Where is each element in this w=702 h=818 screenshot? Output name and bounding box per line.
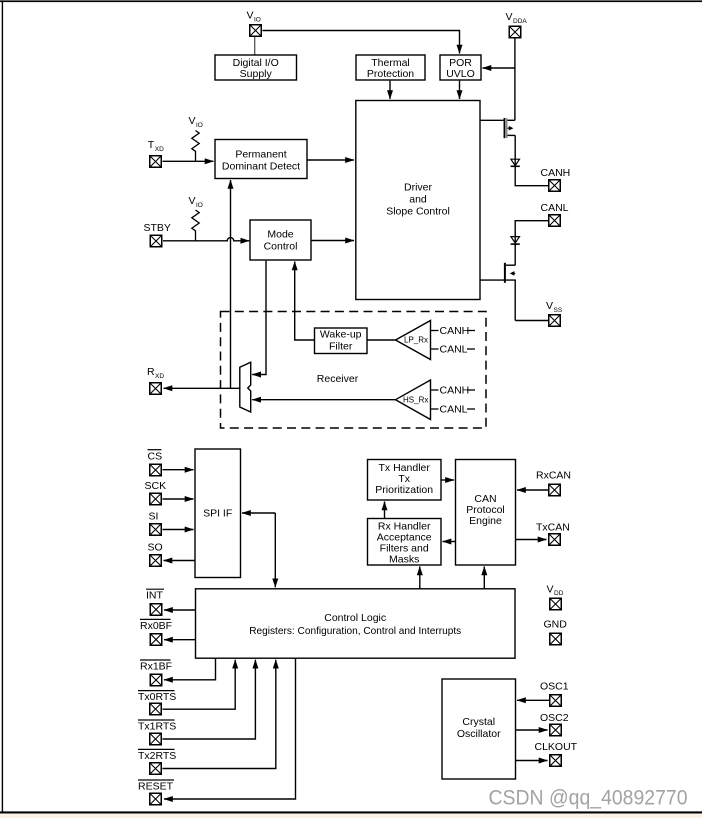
svg-text:SPI IF: SPI IF: [203, 508, 232, 520]
wire POR UVLO to Driver: [459, 81, 461, 99]
page left border: [2, 0, 3, 813]
wire Mode Control to Driver: [311, 240, 354, 242]
pin GND: [544, 619, 568, 645]
wire Control Logic to Rx0BF: [164, 639, 196, 641]
pin Rx0BF: [140, 619, 172, 645]
svg-text:CAN: CAN: [474, 493, 496, 505]
pin RESET: [138, 780, 174, 805]
pin VDDA: [506, 11, 528, 38]
box Mode Control: [250, 220, 311, 260]
wire Control Logic to RESET: [164, 658, 296, 799]
wire D1 to CANH: [515, 135, 548, 185]
svg-text:POR: POR: [449, 57, 472, 69]
wire SCK to SPI IF: [163, 498, 194, 500]
svg-text:CS: CS: [148, 451, 163, 463]
wire Control Logic to INT: [164, 609, 196, 611]
svg-text:Crystal: Crystal: [462, 716, 495, 728]
svg-text:Dominant Detect: Dominant Detect: [222, 160, 300, 172]
box Tx Handler: [368, 460, 442, 501]
wire Crystal Oscillator to CLKOUT: [516, 760, 548, 762]
wire Control Logic to CAN Protocol Engine: [483, 567, 485, 589]
wire HS_Rx to mux lower input: [252, 399, 395, 401]
pin SCK: [145, 480, 167, 505]
svg-text:DDA: DDA: [513, 18, 527, 25]
svg-text:IO: IO: [196, 202, 203, 209]
node CANH (HS input): [431, 385, 476, 397]
wire Tx1RTS to Control Logic: [163, 660, 256, 739]
page top border: [0, 0, 702, 2]
svg-text:SS: SS: [554, 307, 563, 314]
svg-text:CANH: CANH: [440, 385, 470, 397]
box SPI IF: [195, 449, 241, 578]
svg-text:Control: Control: [264, 240, 298, 252]
svg-text:Control Logic: Control Logic: [324, 612, 386, 624]
svg-text:INT: INT: [146, 590, 164, 602]
wire RxCAN to CAN Protocol Engine: [517, 489, 548, 491]
svg-text:V: V: [189, 195, 196, 207]
pin Tx0RTS: [138, 691, 176, 715]
svg-text:CANH: CANH: [440, 325, 470, 337]
wire CAN Protocol Engine to TxCAN: [516, 539, 547, 541]
box Permanent Dominant Detect: [215, 140, 307, 179]
wire VIO to POR UVLO top: [263, 31, 460, 54]
wire mux output to RXD pin: [164, 387, 240, 389]
wire LP_Rx to Wake-up Filter: [367, 339, 396, 341]
svg-text:Permanent: Permanent: [235, 148, 286, 160]
pin CLKOUT: [535, 741, 578, 766]
wire Tx Handler to CAN Protocol Engine: [441, 479, 454, 481]
svg-text:Slope Control: Slope Control: [386, 206, 450, 218]
svg-text:Mode: Mode: [267, 228, 293, 240]
svg-text:Rx1BF: Rx1BF: [140, 661, 172, 673]
svg-text:Thermal: Thermal: [371, 57, 410, 69]
svg-text:CANH: CANH: [541, 167, 571, 179]
node CANL (HS input): [431, 404, 476, 416]
diode D1: [511, 159, 520, 166]
svg-text:CANL: CANL: [440, 404, 468, 416]
wire Wake-up Filter up to Mode Control: [295, 262, 315, 341]
pin CS: [148, 450, 163, 476]
pin RxCAN: [536, 470, 571, 496]
wire CAN Protocol Engine to Rx Handler: [443, 541, 456, 543]
svg-text:Oscillator: Oscillator: [457, 728, 501, 740]
svg-text:Engine: Engine: [469, 515, 502, 527]
svg-text:Tx1RTS: Tx1RTS: [138, 721, 176, 733]
wire junction up to Permanent Dominant Detect: [230, 180, 232, 388]
wire Tx2RTS to Control Logic: [163, 660, 276, 769]
pin CANH: [541, 167, 571, 191]
wire Permanent Dominant Detect to Driver: [307, 159, 354, 161]
svg-text:Tx0RTS: Tx0RTS: [138, 691, 176, 703]
box Wake-up Filter: [315, 328, 368, 354]
svg-text:and: and: [409, 194, 427, 206]
box Thermal Protection: [356, 55, 425, 80]
op-amp LP_Rx: [396, 321, 431, 360]
svg-text:V: V: [247, 9, 254, 21]
wire Mode Control down to mux upper input: [252, 261, 266, 375]
wire Q2 source to VSS: [515, 320, 548, 322]
svg-text:UVLO: UVLO: [446, 68, 475, 80]
svg-text:Wake-up: Wake-up: [320, 329, 362, 341]
resistor VIO pullup on STBY: [189, 195, 203, 241]
wire Rx Handler to Tx Handler: [384, 502, 386, 519]
svg-text:RESET: RESET: [138, 781, 174, 793]
svg-text:CSDN @qq_40892770: CSDN @qq_40892770: [489, 786, 688, 810]
transistor Q1 (high-side MOSFET): [480, 118, 515, 138]
svg-text:Protection: Protection: [367, 68, 414, 80]
svg-text:Digital I/O: Digital I/O: [233, 57, 279, 69]
svg-text:CANL: CANL: [440, 344, 468, 356]
svg-text:TxCAN: TxCAN: [536, 522, 570, 534]
svg-text:R: R: [147, 366, 155, 378]
pin TXD: [148, 139, 164, 167]
pin VSS: [546, 300, 563, 326]
svg-text:OSC1: OSC1: [540, 681, 569, 693]
svg-text:LP_Rx: LP_Rx: [404, 336, 428, 345]
wire CS to SPI IF: [163, 469, 194, 471]
pin Tx2RTS: [138, 749, 176, 774]
pin INT: [146, 589, 164, 615]
wire Control Logic to Rx1BF: [164, 658, 216, 680]
svg-text:V: V: [546, 300, 553, 312]
svg-text:Prioritization: Prioritization: [375, 484, 433, 496]
svg-text:SCK: SCK: [145, 480, 167, 492]
pin VDD: [547, 584, 564, 610]
svg-text:DD: DD: [554, 590, 564, 597]
pin TxCAN: [536, 522, 570, 546]
svg-text:Masks: Masks: [389, 553, 419, 565]
svg-text:IO: IO: [196, 122, 203, 129]
svg-text:Driver: Driver: [404, 182, 433, 194]
box Crystal Oscillator: [442, 679, 516, 779]
svg-text:XD: XD: [155, 146, 164, 153]
wire Crystal Oscillator to OSC2: [516, 729, 548, 731]
wire VDDA down to MOSFET drain: [514, 39, 516, 121]
svg-text:RxCAN: RxCAN: [536, 470, 571, 482]
svg-text:OSC2: OSC2: [540, 712, 569, 724]
pin Tx1RTS: [138, 720, 176, 745]
transistor Q2 (low-side MOSFET): [480, 263, 515, 321]
svg-text:CANL: CANL: [541, 202, 569, 214]
svg-text:V: V: [547, 584, 554, 596]
pin CANL: [541, 202, 569, 226]
svg-text:STBY: STBY: [144, 222, 171, 234]
box Control Logic: [196, 589, 516, 658]
pin VIO (top): [247, 9, 262, 36]
wire SPI IF to SO: [164, 560, 196, 562]
wire SI to SPI IF: [163, 529, 194, 531]
wire VIO down to Digital I/O Supply: [254, 37, 256, 55]
node CANH (LP input): [431, 325, 476, 337]
wire TXD to Permanent Dominant Detect: [163, 160, 214, 162]
svg-text:Receiver: Receiver: [317, 373, 359, 385]
wire STBY to Mode Control (with hop): [163, 238, 249, 241]
pin RXD: [147, 366, 164, 394]
svg-text:Rx0BF: Rx0BF: [140, 620, 172, 632]
pin Rx1BF: [140, 660, 172, 686]
wire CANL to D2: [515, 221, 548, 266]
svg-text:SI: SI: [149, 511, 159, 523]
svg-text:Supply: Supply: [240, 68, 273, 80]
svg-text:GND: GND: [544, 619, 568, 631]
wire OSC1 to Crystal Oscillator: [517, 699, 549, 701]
op-amp HS_Rx: [396, 380, 431, 420]
box Driver and Slope Control: [356, 101, 480, 300]
box CAN Protocol Engine: [456, 460, 516, 566]
resistor VIO pullup on TXD: [189, 115, 203, 162]
receiver dashed box: [221, 312, 487, 429]
bottom beige strip: [0, 814, 702, 818]
svg-text:T: T: [148, 139, 155, 151]
svg-text:XD: XD: [155, 373, 164, 380]
wire Tx0RTS to Control Logic: [163, 660, 236, 710]
diode D2: [511, 237, 520, 245]
svg-text:V: V: [506, 11, 513, 23]
wire SPI IF to Control Logic: [274, 513, 276, 587]
box POR UVLO: [440, 55, 481, 80]
pin OSC1: [540, 681, 569, 707]
node CANL (LP input): [431, 344, 476, 356]
mux (receiver output select): [240, 362, 251, 412]
svg-text:HS_Rx: HS_Rx: [403, 396, 428, 405]
svg-text:IO: IO: [254, 16, 261, 23]
svg-text:Registers: Configuration, Cont: Registers: Configuration, Control and In…: [249, 625, 461, 637]
svg-text:V: V: [189, 115, 196, 127]
pin STBY: [144, 222, 171, 247]
pin OSC2: [540, 712, 569, 736]
wire Control Logic to Rx Handler: [419, 567, 421, 589]
page bottom border: [0, 811, 702, 813]
pin SO: [148, 542, 163, 567]
svg-text:CLKOUT: CLKOUT: [535, 741, 578, 753]
svg-text:SO: SO: [148, 542, 163, 554]
box Rx Handler: [368, 519, 442, 566]
box Digital I/O Supply: [215, 55, 297, 80]
svg-text:Filter: Filter: [329, 341, 353, 353]
wire VDDA branch into POR UVLO: [483, 67, 516, 69]
wire Thermal Protection to Driver: [389, 81, 391, 99]
pin SI: [149, 511, 162, 536]
svg-text:Tx2RTS: Tx2RTS: [138, 750, 176, 762]
